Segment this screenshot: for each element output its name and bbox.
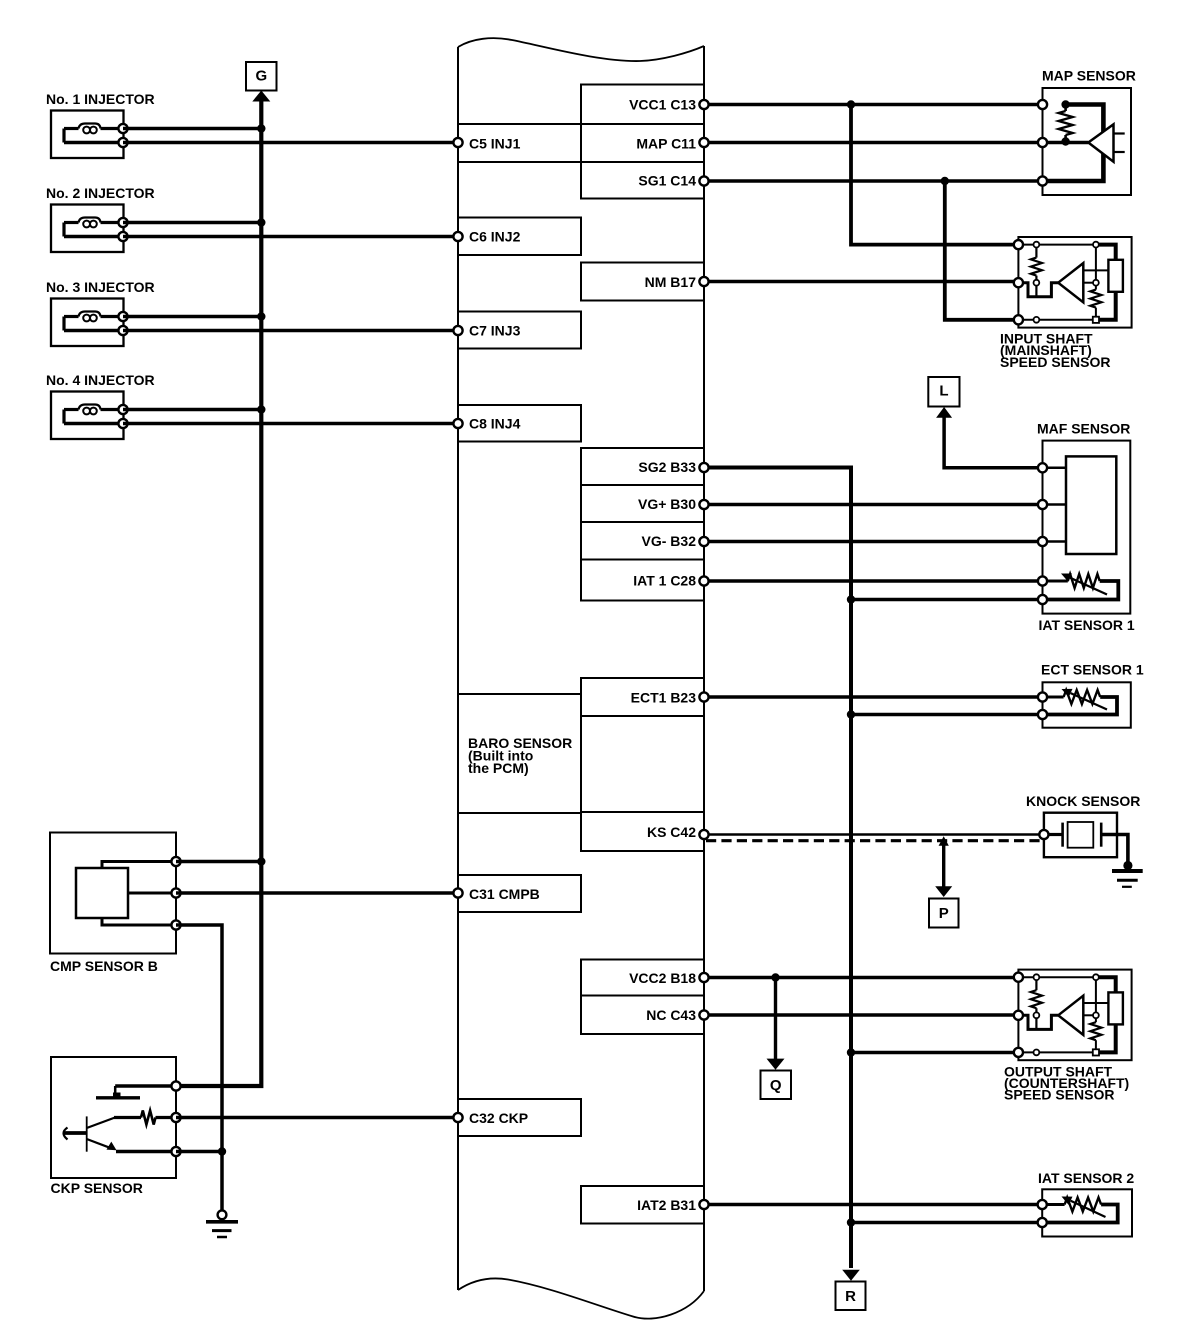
wire ECT1 B23 to ECT sensor 1 <box>704 695 1043 699</box>
svg-text:NM B17: NM B17 <box>645 274 697 290</box>
PCM pin box SG2 B33 <box>581 448 704 485</box>
svg-text:MAP SENSOR: MAP SENSOR <box>1042 68 1136 84</box>
svg-text:KNOCK SENSOR: KNOCK SENSOR <box>1026 793 1140 809</box>
injector No. 3 label <box>46 279 155 295</box>
svg-text:R: R <box>845 1288 856 1305</box>
svg-text:C8 INJ4: C8 INJ4 <box>469 416 521 432</box>
wire injector 3 signal to PCM pin <box>123 329 458 332</box>
IAT sensor 2 label <box>1038 1170 1134 1186</box>
terminal box Q <box>761 1071 792 1100</box>
BARO sensor block (built into PCM) <box>458 694 581 813</box>
knock sensor (piezo element) <box>1039 813 1128 866</box>
wire injector 4 signal to PCM pin <box>123 422 458 425</box>
wire VG- B32 to MAF sensor <box>704 540 1043 544</box>
injector No. 3 (solenoid coil) <box>51 299 128 347</box>
wire CMP sensor power to trunk <box>176 857 265 865</box>
PCM pin box C5 INJ1 <box>458 124 581 162</box>
PCM pin box C7 INJ3 <box>458 312 581 349</box>
PCM pin box VCC2 B18 <box>581 960 704 996</box>
injector No. 1 (solenoid coil) <box>51 111 128 159</box>
knock sensor label <box>1026 793 1140 809</box>
svg-text:SG1 C14: SG1 C14 <box>638 173 696 189</box>
svg-text:SPEED SENSOR: SPEED SENSOR <box>1000 354 1110 370</box>
output shaft (countershaft) speed sensor <box>1014 970 1132 1061</box>
svg-text:VCC2 B18: VCC2 B18 <box>629 970 696 986</box>
PCM pin box C31 CMPB <box>458 875 581 912</box>
svg-text:CMP SENSOR B: CMP SENSOR B <box>50 958 158 974</box>
svg-text:CKP SENSOR: CKP SENSOR <box>51 1180 143 1196</box>
svg-text:NC C43: NC C43 <box>646 1007 696 1023</box>
wire ground trunk (vertical bus to G) <box>176 99 261 1086</box>
svg-text:L: L <box>939 382 948 399</box>
ground (CMP/CKP sensor ground) <box>206 1210 238 1237</box>
wire KS C42 to knock sensor <box>704 833 1044 835</box>
wire CMP sensor return to sensor ground line <box>176 925 222 1212</box>
svg-text:VCC1 C13: VCC1 C13 <box>629 97 696 113</box>
PCM pin box IAT2 B31 <box>581 1186 704 1224</box>
wire CKP sensor signal to C32 CKP <box>176 1116 458 1119</box>
injector No. 4 (solenoid coil) <box>51 392 128 440</box>
arrow to G <box>252 91 270 102</box>
svg-text:IAT SENSOR 2: IAT SENSOR 2 <box>1038 1170 1134 1186</box>
svg-text:P: P <box>939 905 949 922</box>
ECT sensor 1 label <box>1041 662 1144 678</box>
wire VG+ B30 to MAF sensor <box>704 503 1043 507</box>
shield (dashed) of knock sensor wire <box>706 839 1040 842</box>
wire VCC1 C13 to MAP sensor <box>704 103 1043 107</box>
svg-text:SPEED SENSOR: SPEED SENSOR <box>1004 1087 1114 1103</box>
wire injector 4 ground side to trunk <box>123 405 265 413</box>
svg-text:No. 4 INJECTOR: No. 4 INJECTOR <box>46 372 155 388</box>
wire ground bus to output shaft speed sensor <box>847 1048 1019 1056</box>
svg-text:MAP C11: MAP C11 <box>636 135 696 151</box>
wire SG1 C14 to MAP sensor <box>704 179 1043 183</box>
PCM pin box C32 CKP <box>458 1099 581 1136</box>
output shaft speed sensor label <box>1004 1063 1129 1102</box>
svg-text:G: G <box>255 68 267 85</box>
wire IAT sensor 1 return to ground bus <box>847 595 1043 603</box>
wire NM B17 to input shaft speed sensor <box>704 280 1018 284</box>
svg-text:the PCM): the PCM) <box>468 760 529 776</box>
svg-text:ECT1 B23: ECT1 B23 <box>631 689 697 705</box>
arrow to L <box>936 407 952 418</box>
wire injector 1 signal to PCM pin <box>123 141 458 144</box>
MAF sensor label <box>1037 421 1130 437</box>
PCM pin box VG+ B30 <box>581 485 704 522</box>
PCM pin box IAT 1 C28 <box>581 560 704 601</box>
injector No. 2 label <box>46 185 155 201</box>
IAT sensor 1 label <box>1039 617 1135 633</box>
PCM pin terminals (connector circles) <box>453 100 708 1209</box>
svg-text:IAT 1 C28: IAT 1 C28 <box>633 572 696 588</box>
injector No. 2 (solenoid coil) <box>51 205 128 253</box>
CMP sensor B label <box>50 958 158 974</box>
wire IAT sensor 2 return to ground bus <box>847 1218 1042 1226</box>
terminal box L <box>928 377 959 407</box>
svg-text:MAF SENSOR: MAF SENSOR <box>1037 421 1130 437</box>
svg-text:C31 CMPB: C31 CMPB <box>469 886 540 902</box>
PCM pin box C6 INJ2 <box>458 218 581 256</box>
MAP sensor label <box>1042 68 1136 84</box>
wire MAF sensor ground to L <box>944 416 1042 468</box>
svg-text:VG- B32: VG- B32 <box>642 533 697 549</box>
wire injector 2 ground side to trunk <box>123 218 265 226</box>
svg-text:ECT SENSOR 1: ECT SENSOR 1 <box>1041 662 1144 678</box>
PCM pin box NM B17 <box>581 263 704 301</box>
PCM pin box VG- B32 <box>581 522 704 560</box>
svg-text:C5 INJ1: C5 INJ1 <box>469 135 521 151</box>
arrow from KS wire to P <box>935 836 952 897</box>
terminal box P <box>929 899 959 928</box>
MAP sensor <box>1038 88 1131 195</box>
PCM pin box VCC1 C13 <box>581 85 704 125</box>
wire NC C43 to output shaft speed sensor <box>704 1013 1018 1017</box>
PCM pin box KS C42 <box>581 812 704 851</box>
terminal box G <box>246 62 277 91</box>
svg-text:IAT2 B31: IAT2 B31 <box>637 1197 696 1213</box>
wire CMP sensor signal to C31 CMPB <box>176 891 458 894</box>
svg-text:SG2 B33: SG2 B33 <box>638 459 696 475</box>
IAT sensor 2 (thermistor) <box>1038 1189 1132 1236</box>
PCM pin box MAP C11 <box>581 124 704 162</box>
wire VCC2 B18 to output shaft speed sensor <box>704 976 1018 980</box>
input shaft (mainshaft) speed sensor <box>1014 237 1132 328</box>
ECT sensor 1 (thermistor) <box>1038 682 1131 727</box>
terminal box R <box>836 1282 866 1311</box>
MAF sensor with IAT sensor 1 <box>1038 441 1130 614</box>
svg-text:No. 1 INJECTOR: No. 1 INJECTOR <box>46 91 155 107</box>
CMP sensor B <box>50 833 181 954</box>
svg-text:C7 INJ3: C7 INJ3 <box>469 322 521 338</box>
wire injector 1 ground side to trunk <box>123 124 265 132</box>
ground (knock sensor) <box>1112 861 1143 887</box>
svg-text:C6 INJ2: C6 INJ2 <box>469 229 521 245</box>
svg-text:No. 2 INJECTOR: No. 2 INJECTOR <box>46 185 155 201</box>
wire CKP sensor return to sensor ground line <box>176 1147 226 1155</box>
PCM pin box C8 INJ4 <box>458 405 581 442</box>
PCM pin box SG1 C14 <box>581 162 704 199</box>
wire IAT 1 C28 to IAT sensor 1 <box>704 579 1043 583</box>
svg-text:KS C42: KS C42 <box>647 824 696 840</box>
PCM pin box ECT1 B23 <box>581 678 704 716</box>
wire injector 3 ground side to trunk <box>123 312 265 320</box>
wire SG2 B33 trunk (sensor ground bus) <box>704 468 851 1269</box>
injector No. 4 label <box>46 372 155 388</box>
wire VCC1 branch to input shaft speed sensor <box>847 100 1019 244</box>
arrow from VCC2 wire to Q <box>767 973 785 1070</box>
svg-text:Q: Q <box>770 1077 782 1094</box>
injector No. 1 label <box>46 91 155 107</box>
svg-text:IAT SENSOR 1: IAT SENSOR 1 <box>1039 617 1135 633</box>
CKP sensor label <box>51 1180 143 1196</box>
wire IAT2 B31 to IAT sensor 2 <box>704 1203 1042 1207</box>
PCM connector body (torn-edge outline) <box>458 38 704 1319</box>
PCM pin box NC C43 <box>581 996 704 1035</box>
svg-text:C32 CKP: C32 CKP <box>469 1110 528 1126</box>
wire MAP C11 signal <box>704 141 1088 145</box>
arrowhead into R <box>842 1270 860 1281</box>
wire injector 2 signal to PCM pin <box>123 235 458 238</box>
CKP sensor <box>51 1057 181 1178</box>
svg-text:No. 3 INJECTOR: No. 3 INJECTOR <box>46 279 155 295</box>
input shaft speed sensor label <box>1000 331 1110 370</box>
svg-text:VG+ B30: VG+ B30 <box>638 496 696 512</box>
wire SG1 branch to input shaft speed sensor <box>941 177 1019 320</box>
wire ECT sensor 1 return to ground bus <box>847 710 1043 718</box>
